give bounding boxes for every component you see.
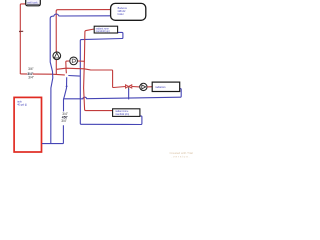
svg-text:well tank: well tank xyxy=(27,0,38,4)
wire xyxy=(132,86,140,88)
valve V1 (bowtie) xyxy=(126,85,132,88)
top-left box K1 xyxy=(26,0,41,6)
svg-text:manifold (dn): manifold (dn) xyxy=(115,113,129,116)
svg-text:3/4": 3/4" xyxy=(61,119,67,123)
box U2 upper manifold xyxy=(94,26,117,33)
label stack: pipe sizes left xyxy=(27,67,34,80)
box U4 radiators xyxy=(152,82,180,91)
boiler B1 xyxy=(111,3,146,20)
wire: blue boiler return from boiler to left drop xyxy=(50,14,110,143)
wire: mid blue riser above label gap xyxy=(64,77,67,111)
wire: bottom blue U from tank to mid riser xyxy=(42,125,63,143)
node bridge cross at (67,75.3) xyxy=(65,73,69,77)
pump P2 (circle with small p) xyxy=(70,57,78,65)
svg-text:boiler: boiler xyxy=(118,13,124,16)
svg-text:radiators: radiators xyxy=(155,85,166,89)
wire: red mid horizontal to right assembly xyxy=(57,68,113,70)
pump P1 (circle with up triangle) xyxy=(53,52,61,60)
valve tick T1 on left riser xyxy=(19,30,23,32)
wire: red supply from top-left box down to lower manifold xyxy=(20,4,26,74)
wire: red branch through pump P2 xyxy=(78,60,85,62)
box U3 lower manifold xyxy=(113,109,140,117)
svg-text:3/4": 3/4" xyxy=(28,67,34,71)
svg-text:. v e r s i o n .: . v e r s i o n . xyxy=(172,154,190,158)
wire: red boiler supply riser x=56 xyxy=(56,10,110,75)
radiant tank box T2 (red border) xyxy=(14,97,41,152)
pump P3 (circle with right triangle) xyxy=(140,83,147,90)
wire: blue stub from bridge cross to middle drop xyxy=(68,75,80,78)
wire: long blue return horizontal y=98.7 xyxy=(64,88,182,98)
watermark xyxy=(170,151,194,158)
wire: red horizontal main at y=74 xyxy=(20,74,66,75)
flow arrow A1 on mid riser xyxy=(66,84,68,87)
svg-text:manifold (up): manifold (up) xyxy=(96,30,110,33)
wire: blue loop from box U2 right side down the middle to box U3 xyxy=(80,32,142,124)
label stack: pipe sizes middle riser xyxy=(61,112,68,123)
svg-text:40 gal (j): 40 gal (j) xyxy=(17,104,27,107)
svg-text:3/4": 3/4" xyxy=(28,76,34,80)
wire xyxy=(147,86,152,88)
wire: red vertical x=84.9 from box U2 to box U3 xyxy=(84,29,113,111)
